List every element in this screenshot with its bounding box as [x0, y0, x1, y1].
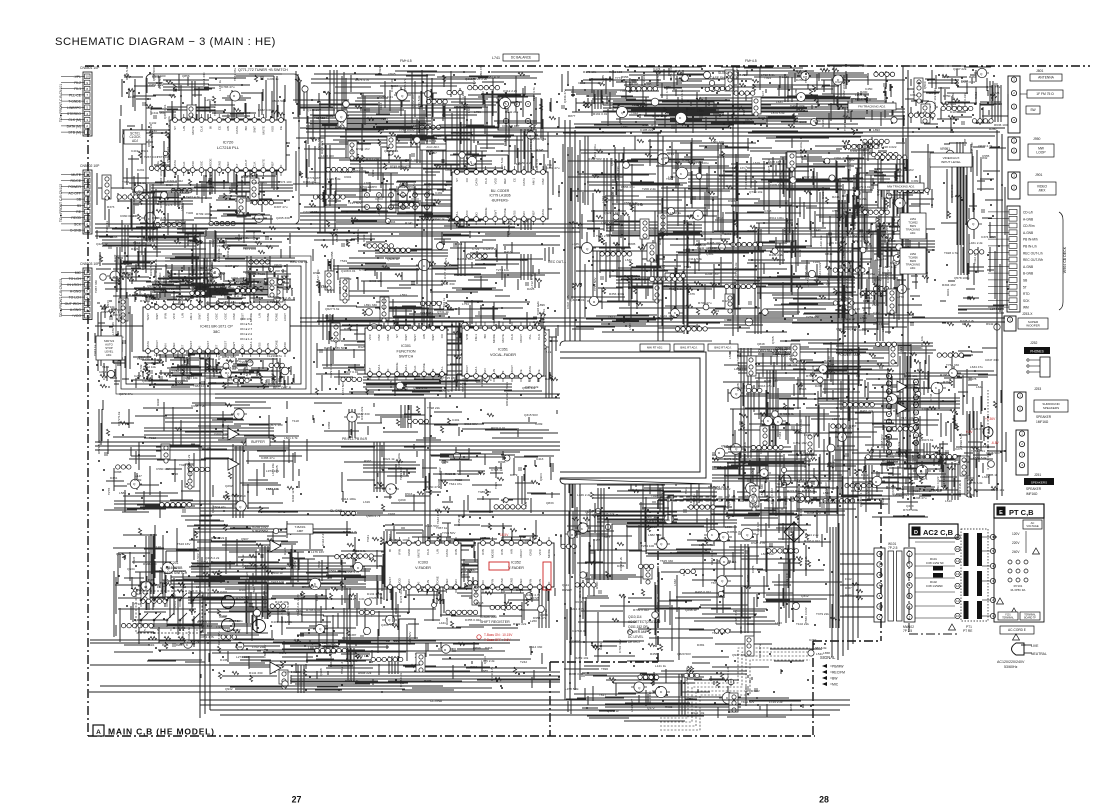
svg-text:CE: CE [519, 369, 523, 373]
FM AM IF texture [561, 136, 905, 335]
connector CN5501 [61, 66, 100, 136]
svg-text:L121 1k: L121 1k [655, 664, 666, 668]
svg-text:D494 100u: D494 100u [790, 104, 805, 108]
svg-text:DATA (M): DATA (M) [67, 124, 81, 128]
transistor Q203 [253, 620, 266, 633]
svg-text:R413: R413 [504, 250, 512, 254]
connector CN5502 [61, 164, 100, 234]
svg-text:Q667: Q667 [865, 486, 869, 494]
svg-text:D: D [914, 530, 918, 536]
svg-text:0.9V: 0.9V [966, 430, 973, 434]
svg-text:C614: C614 [865, 296, 873, 300]
svg-text:L157: L157 [899, 345, 903, 352]
svg-text:E: E [999, 510, 1003, 516]
svg-text:T869: T869 [885, 463, 892, 467]
svg-text:D397 16V: D397 16V [900, 168, 915, 172]
svg-text:R191 0.01: R191 0.01 [593, 112, 608, 116]
svg-text:D356: D356 [859, 197, 867, 201]
T-BASS area texture [113, 520, 418, 663]
svg-text:Q292: Q292 [225, 484, 233, 488]
svg-text:T368 16V: T368 16V [356, 654, 370, 658]
svg-text:R287: R287 [176, 578, 183, 582]
svg-text:T415: T415 [494, 482, 498, 489]
svg-text:A-GNB: A-GNB [1023, 265, 1033, 269]
svg-text:R280: R280 [989, 127, 997, 131]
connector J950 MW loop [1008, 137, 1020, 160]
svg-text:REF: REF [226, 161, 230, 167]
IC251 power amp block [882, 373, 919, 463]
svg-text:L948: L948 [804, 433, 811, 437]
svg-text:T872 50V: T872 50V [741, 700, 755, 704]
svg-text:Q113 5.6k: Q113 5.6k [688, 257, 702, 261]
svg-text:D114: D114 [455, 242, 462, 246]
svg-text:AIN: AIN [163, 343, 167, 348]
svg-text:CE: CE [513, 178, 517, 182]
svg-text:T149 100: T149 100 [785, 573, 789, 586]
svg-text:PB IN-L/h: PB IN-L/h [1023, 245, 1037, 249]
svg-text:XI: XI [198, 345, 202, 348]
svg-text:R323 330: R323 330 [263, 594, 267, 608]
relay RY101 [1008, 560, 1028, 592]
svg-text:R956 47u: R956 47u [439, 389, 453, 393]
svg-text:T836: T836 [264, 380, 268, 387]
svg-text:L207: L207 [205, 98, 212, 102]
svg-text:TONE: TONE [275, 313, 279, 321]
svg-text:DB4052BB: DB4052BB [166, 566, 184, 570]
connector W904 CB DECK [988, 206, 1043, 312]
svg-text:BI: BI [388, 549, 392, 552]
svg-text:ST: ST [180, 344, 184, 348]
IC352 V-fader [478, 537, 554, 593]
svg-text:T765 1k: T765 1k [843, 119, 847, 131]
svg-text:CLK: CLK [200, 126, 204, 132]
svg-text:16: 16 [888, 450, 891, 454]
svg-text:LIN: LIN [180, 313, 184, 318]
svg-text:T232 0.01: T232 0.01 [379, 95, 393, 99]
svg-text:D601: D601 [946, 288, 950, 296]
tuner top right texture [561, 64, 905, 135]
svg-text:PB IN-L PB IN-R: PB IN-L PB IN-R [342, 437, 368, 441]
svg-text:D381: D381 [697, 643, 705, 647]
svg-text:D860 5.6k: D860 5.6k [223, 494, 238, 498]
svg-text:D228 2.2k: D228 2.2k [960, 319, 975, 323]
svg-text:MODE: MODE [547, 549, 551, 558]
svg-text:0.68 1/2WNF: 0.68 1/2WNF [926, 584, 943, 588]
svg-text:12: 12 [888, 420, 891, 424]
svg-text:L789 50V: L789 50V [199, 624, 213, 628]
svg-text:Q203: Q203 [253, 614, 261, 618]
svg-text:R995: R995 [389, 380, 393, 388]
svg-text:L893: L893 [873, 128, 880, 132]
phones jack symbol [1027, 357, 1050, 377]
transistor Q202 [222, 619, 235, 632]
svg-text:IFIN: IFIN [500, 549, 504, 555]
svg-text:ADJ.: ADJ. [106, 353, 112, 357]
svg-text:L303: L303 [955, 423, 959, 430]
left mid wiring texture [94, 234, 295, 298]
svg-text:AIN: AIN [510, 549, 514, 554]
adj boxes row [640, 344, 670, 351]
svg-text:BO: BO [483, 333, 487, 338]
svg-text:C299: C299 [535, 422, 543, 426]
svg-text:L631: L631 [776, 100, 783, 104]
svg-text:AC DETECT(2SA11A2: AC DETECT(2SA11A2 [628, 620, 661, 624]
horizontal bus bundle y228 wire [95, 223, 620, 225]
svg-text:T921: T921 [505, 382, 509, 389]
svg-text:T761 330: T761 330 [946, 363, 959, 367]
svg-text:T349: T349 [778, 432, 782, 439]
svg-text:C105 22k: C105 22k [640, 128, 654, 132]
svg-text:R208 47u: R208 47u [913, 496, 927, 500]
svg-text:Q955: Q955 [585, 510, 593, 514]
svg-text:R111 22k: R111 22k [366, 157, 379, 161]
op-amp IC202 buffer LCH [228, 428, 239, 440]
svg-text:5T: 5T [1023, 285, 1027, 289]
coil can L762 MPX [396, 181, 432, 212]
svg-text:L960: L960 [154, 353, 161, 357]
svg-text:T929: T929 [752, 504, 759, 508]
svg-text:L137 1k: L137 1k [218, 80, 222, 91]
svg-text:Q856: Q856 [182, 74, 190, 78]
svg-text:Q822 330: Q822 330 [356, 412, 370, 416]
svg-text:Q459: Q459 [389, 622, 397, 626]
svg-text:L166: L166 [190, 239, 197, 243]
svg-text:D931: D931 [631, 78, 639, 82]
svg-text:FM+4.5: FM+4.5 [745, 59, 757, 63]
svg-text:AM-1: AM-1 [404, 364, 408, 371]
svg-text:OSC: OSC [541, 177, 545, 184]
svg-text:L712 4.7k: L712 4.7k [530, 274, 534, 288]
svg-text:T682: T682 [136, 588, 143, 592]
svg-text:10: 10 [888, 405, 891, 409]
svg-text:D873 5.6k: D873 5.6k [97, 439, 101, 454]
svg-text:R837: R837 [159, 200, 163, 208]
svg-text:38C: 38C [213, 330, 220, 334]
svg-text:IC303: IC303 [418, 561, 428, 565]
svg-text:ST: ST [173, 126, 177, 130]
svg-text:SIGNAL: SIGNAL [820, 655, 836, 660]
horizontal bus bundle y320 wire [300, 317, 1005, 319]
svg-text:T743: T743 [503, 139, 507, 146]
svg-text:Q296 100: Q296 100 [244, 564, 258, 568]
svg-text:V-FADER: V-FADER [415, 566, 431, 570]
svg-text:C417 100u: C417 100u [799, 142, 803, 157]
svg-text:BU- CODER: BU- CODER [491, 189, 510, 193]
connector MW102 7P [903, 548, 915, 633]
svg-text:Q421 1k: Q421 1k [96, 242, 108, 246]
svg-text:CLK: CLK [182, 162, 186, 168]
svg-text:Q681 100: Q681 100 [405, 158, 419, 162]
svg-text:OSC: OSC [386, 333, 390, 340]
connector J253 surround [1014, 392, 1026, 421]
vertical x735 spine wire [732, 66, 734, 336]
svg-text:R286: R286 [176, 643, 183, 647]
svg-text:D420 10k: D420 10k [904, 374, 918, 378]
svg-text:CLK (M): CLK (M) [68, 118, 81, 122]
svg-text:L634 47u: L634 47u [970, 365, 983, 369]
svg-text:T808 2.2k: T808 2.2k [660, 483, 664, 497]
svg-text:IMF16Ω: IMF16Ω [1026, 492, 1038, 496]
svg-text:AM-1: AM-1 [474, 366, 478, 373]
svg-text:Q380: Q380 [813, 119, 821, 123]
svg-text:TO ■ FRONT C.B CN102: TO ■ FRONT C.B CN102 [59, 184, 63, 222]
svg-text:R788: R788 [843, 189, 847, 197]
horizontal bus y395 wire [215, 393, 560, 395]
svg-text:S-GND: S-GND [620, 318, 631, 322]
svg-text:T406: T406 [186, 211, 193, 215]
svg-text:Q321: Q321 [496, 96, 504, 100]
svg-text:T704 50V: T704 50V [442, 531, 456, 535]
svg-text:L389 0.022: L389 0.022 [715, 487, 731, 491]
svg-text:T-GNDE: T-GNDE [68, 100, 82, 104]
svg-text:TC801,802: TC801,802 [855, 98, 871, 102]
svg-text:L630 2.2k: L630 2.2k [217, 248, 221, 262]
svg-text:L474 50V: L474 50V [341, 381, 345, 395]
svg-text:L777 100u: L777 100u [806, 272, 810, 287]
svg-text:C891 4.7k: C891 4.7k [200, 635, 215, 639]
svg-text:Q952 100u: Q952 100u [842, 82, 846, 98]
svg-text:BI: BI [501, 370, 505, 373]
svg-text:REC OUT-R: REC OUT-R [273, 386, 292, 390]
svg-text:C116 2.2k: C116 2.2k [321, 532, 325, 546]
svg-text:R639: R639 [670, 551, 678, 555]
svg-text:L878: L878 [520, 258, 527, 262]
svg-text:C613 47u: C613 47u [758, 384, 772, 388]
svg-text:L332: L332 [673, 579, 677, 586]
svg-text:Q972 5.6k: Q972 5.6k [117, 411, 121, 426]
svg-text:C115: C115 [796, 516, 800, 523]
svg-text:15: 15 [915, 403, 918, 407]
svg-text:R245: R245 [832, 195, 840, 199]
svg-text:L803 10k: L803 10k [185, 376, 198, 380]
svg-text:L583: L583 [119, 491, 126, 495]
svg-text:R709 100u: R709 100u [196, 212, 211, 216]
svg-text:RY101: RY101 [1014, 584, 1023, 588]
warning triangle cord [1013, 634, 1020, 640]
svg-text:T232 10k: T232 10k [143, 365, 156, 369]
svg-text:13: 13 [196, 585, 200, 589]
svg-text:AIN: AIN [483, 368, 487, 373]
svg-text:Q207 330: Q207 330 [214, 432, 228, 436]
svg-text:T762 0.022: T762 0.022 [399, 128, 415, 132]
label L951 tracking [900, 213, 926, 239]
svg-text:T-Bass OFF : 0.6V: T-Bass OFF : 0.6V [484, 638, 511, 642]
svg-text:VOCAL-FADER: VOCAL-FADER [490, 353, 516, 357]
left border dash-dot wire [87, 128, 89, 736]
svg-text:T197 50V: T197 50V [348, 201, 362, 205]
svg-text:T918: T918 [651, 494, 658, 498]
svg-text:RTD: RTD [1023, 292, 1030, 296]
svg-text:R255: R255 [274, 296, 282, 300]
svg-text:R750: R750 [943, 94, 951, 98]
svg-text:Q705: Q705 [771, 336, 775, 344]
svg-text:R942 1k: R942 1k [986, 322, 998, 326]
svg-text:L389 50V: L389 50V [601, 221, 615, 225]
svg-text:TO ■ FRONT C.B CN103: TO ■ FRONT C.B CN103 [59, 279, 63, 317]
svg-text:12: 12 [915, 380, 918, 384]
transformer left pins [955, 534, 960, 618]
svg-text:C922 47u: C922 47u [835, 80, 849, 84]
svg-text:10: 10 [86, 75, 90, 79]
svg-text:T758: T758 [628, 78, 632, 85]
svg-text:TONE: TONE [435, 576, 439, 584]
svg-text:T625 330: T625 330 [660, 559, 673, 563]
label L952 tracking [900, 248, 926, 274]
svg-text:MUTE: MUTE [262, 126, 266, 135]
svg-text:L553: L553 [400, 293, 407, 297]
label SW box [1026, 106, 1040, 114]
svg-text:L959 47u: L959 47u [479, 65, 483, 78]
svg-text:Q268: Q268 [319, 668, 323, 676]
svg-text:T104: T104 [102, 365, 109, 369]
svg-text:FM-1: FM-1 [474, 334, 478, 341]
svg-text:B-GNB: B-GNB [1023, 272, 1033, 276]
svg-text:ON ●:5.4: ON ●:5.4 [240, 322, 252, 326]
svg-text:Q266 5.6k: Q266 5.6k [507, 220, 511, 235]
svg-text:D675: D675 [745, 118, 753, 122]
svg-text:R193: R193 [644, 82, 652, 86]
svg-text:XI: XI [279, 164, 283, 167]
svg-text:Q429: Q429 [906, 504, 914, 508]
svg-text:C410: C410 [158, 272, 162, 280]
resistors R101 R102 [926, 557, 944, 588]
svg-text:D266: D266 [796, 78, 804, 82]
svg-text:C174: C174 [653, 67, 661, 71]
svg-text:PLL: PLL [440, 366, 444, 372]
svg-text:WOOFER: WOOFER [1026, 323, 1040, 327]
svg-text:XI: XI [386, 368, 390, 371]
svg-text:SPEAKER: SPEAKER [1036, 415, 1052, 419]
svg-text:D307 47u: D307 47u [274, 205, 288, 209]
svg-text:L362 100u: L362 100u [710, 246, 725, 250]
svg-text:GND: GND [407, 548, 411, 556]
svg-text:+VCO: +VCO [72, 314, 82, 318]
svg-text:L781 10k: L781 10k [210, 263, 214, 276]
dashed bus wire [660, 497, 850, 501]
svg-text:Q947 330: Q947 330 [732, 653, 746, 657]
svg-text:D937 0.01: D937 0.01 [344, 370, 359, 374]
svg-text:C867 2.2k: C867 2.2k [804, 555, 808, 570]
svg-text:D569 10k: D569 10k [335, 228, 339, 242]
svg-text:C223: C223 [992, 91, 1000, 95]
svg-text:D509: D509 [362, 234, 366, 242]
svg-text:TONE: TONE [422, 363, 426, 371]
svg-text:D725: D725 [532, 596, 540, 600]
svg-text:Q965 0.01: Q965 0.01 [881, 196, 896, 200]
svg-text:C876 0.01: C876 0.01 [572, 629, 587, 633]
svg-text:VSS: VSS [258, 342, 262, 348]
svg-text:C159: C159 [134, 478, 142, 482]
svg-text:R353 100u: R353 100u [609, 292, 624, 296]
svg-text:REF: REF [519, 578, 523, 584]
svg-text:R187 100: R187 100 [624, 274, 638, 278]
svg-text:ROUT: ROUT [155, 340, 159, 349]
svg-text:C419: C419 [131, 149, 139, 153]
svg-text:VOLTAGE: VOLTAGE [1026, 524, 1039, 528]
svg-text:DATA: DATA [522, 178, 526, 186]
svg-text:C882: C882 [327, 421, 331, 429]
svg-text:C604: C604 [794, 177, 802, 181]
svg-text:AM-1: AM-1 [532, 178, 536, 185]
svg-text:SHIFT REGISTER: SHIFT REGISTER [480, 620, 510, 624]
svg-text:R259: R259 [293, 560, 297, 568]
svg-text:AIN: AIN [407, 579, 411, 584]
svg-text:C307 100: C307 100 [390, 78, 394, 92]
svg-text:RE: RE [76, 210, 81, 214]
svg-text:L745: L745 [572, 242, 579, 246]
svg-text:C642: C642 [993, 102, 1001, 106]
svg-text:R963: R963 [364, 459, 372, 463]
warning triangles PT [997, 548, 1040, 614]
svg-text:D815: D815 [714, 465, 722, 469]
op-amp IC202 T-BASS AMP 1 [270, 540, 281, 552]
svg-text:G-GNB: G-GNB [70, 229, 82, 233]
svg-text:C783 47u: C783 47u [221, 85, 235, 89]
svg-text:L720: L720 [664, 85, 671, 89]
svg-text:L476 16V: L476 16V [111, 321, 115, 335]
svg-text:R377: R377 [424, 679, 432, 683]
svg-text:R819 16V: R819 16V [505, 391, 509, 406]
svg-text:C887: C887 [315, 593, 319, 601]
svg-text:R956: R956 [621, 75, 629, 79]
svg-text:D191: D191 [821, 191, 825, 199]
svg-text:D771 47u: D771 47u [181, 188, 195, 192]
svg-text:D291: D291 [137, 168, 145, 172]
svg-text:Q904: Q904 [539, 473, 543, 481]
svg-text:C788 1k: C788 1k [491, 468, 503, 472]
svg-text:Q306: Q306 [381, 623, 389, 627]
svg-text:PT RE: PT RE [963, 629, 972, 633]
svg-text:L562 100u: L562 100u [245, 363, 249, 378]
svg-text:R393 0.022: R393 0.022 [804, 539, 820, 543]
svg-text:GND: GND [217, 160, 221, 168]
svg-text:Q899: Q899 [473, 646, 481, 650]
left low horizontal wires [90, 639, 520, 641]
svg-text:14: 14 [170, 585, 174, 589]
svg-text:D968 50V: D968 50V [880, 433, 884, 448]
svg-text:T341: T341 [366, 535, 370, 542]
svg-text:BW1 RT ADJ.: BW1 RT ADJ. [680, 346, 697, 350]
svg-text:C827 47u: C827 47u [101, 310, 115, 314]
svg-text:SB: SB [1023, 279, 1027, 283]
AC region boundary dash-dot wire [658, 499, 880, 501]
svg-text:BO: BO [244, 125, 248, 130]
svg-text:Q202: Q202 [220, 614, 228, 618]
svg-text:LC7218 PLL: LC7218 PLL [217, 145, 240, 150]
svg-text:T569 22k: T569 22k [329, 569, 342, 573]
svg-text:Q110,114: Q110,114 [628, 615, 642, 619]
svg-text:DETECT: DETECT [628, 640, 641, 644]
svg-text:L680: L680 [872, 303, 879, 307]
svg-text:R805: R805 [628, 242, 636, 246]
svg-text:CE: CE [279, 126, 283, 130]
svg-text:Q453 47u: Q453 47u [218, 289, 232, 293]
svg-text:LIN: LIN [435, 549, 439, 554]
svg-text:Q642 1k: Q642 1k [433, 217, 445, 221]
svg-text:Q297 0.01: Q297 0.01 [384, 149, 399, 153]
red box right marker [543, 562, 551, 590]
svg-text:SWT: SWT [404, 334, 408, 341]
svg-text:R675: R675 [279, 651, 287, 655]
svg-text:L482 0.01: L482 0.01 [258, 108, 272, 112]
svg-text:C896 22k: C896 22k [724, 232, 738, 236]
svg-text:Q336 22k: Q336 22k [601, 512, 615, 516]
label SPEAKERS [1024, 478, 1054, 485]
svg-text:D906: D906 [728, 199, 736, 203]
svg-text:T806 0.01: T806 0.01 [213, 102, 217, 116]
label box SC701 CLOCK ADJ [124, 130, 146, 144]
svg-text:Q114 100u: Q114 100u [341, 497, 356, 501]
